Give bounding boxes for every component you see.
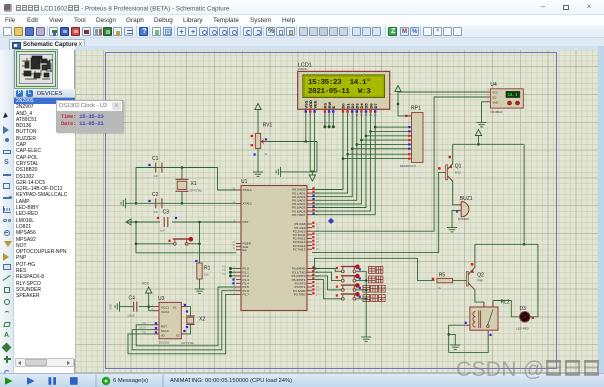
svg-text:RP1: RP1 [411, 106, 421, 112]
wire U1 P3.0 row to button 1 [312, 269, 339, 272]
junction X1 top [181, 166, 184, 169]
LCD screen [303, 75, 385, 98]
wire net XTAL2 row [131, 202, 237, 204]
svg-text:32: 32 [316, 214, 319, 217]
svg-text:1: 1 [488, 98, 490, 101]
svg-text:C1: C1 [152, 156, 159, 162]
sheet border [106, 53, 557, 369]
svg-text:12: 12 [316, 275, 319, 278]
wire LCD D1 to U1 P0.1 [312, 113, 348, 194]
svg-text:X1: X1 [191, 181, 197, 187]
junction D1 to RP1 run [346, 153, 349, 156]
svg-text:I/O: I/O [143, 330, 146, 334]
junction VSS-wiper [305, 140, 308, 143]
relay coil [473, 311, 481, 329]
svg-text:RST: RST [161, 324, 167, 328]
svg-text:P12: P12 [222, 273, 227, 276]
button label jian (minus key) [369, 267, 383, 274]
capacitor C1 [136, 167, 156, 169]
wire D0 to RP1 pin 9 [343, 158, 408, 160]
svg-text:28: 28 [316, 248, 319, 251]
svg-text:X2: X2 [199, 317, 205, 323]
wire LCD D7 to U1 P0.7 [312, 113, 375, 215]
ground (BUZ1) [447, 223, 457, 232]
svg-text:16: 16 [316, 290, 319, 293]
relay RL2 body [470, 307, 498, 330]
svg-text:GND: GND [109, 304, 113, 310]
wire LCD VEE column [312, 113, 314, 173]
svg-text:23: 23 [316, 230, 319, 233]
button label xuanze (select key) [363, 285, 385, 292]
wire VCC to RP1 pin1 [398, 95, 408, 116]
junction D7 to RP1 run [374, 126, 377, 129]
power VCC arrow (RP1/U4) [395, 86, 401, 95]
svg-text:220uF: 220uF [128, 314, 136, 318]
svg-text:P3.7/RD: P3.7/RD [294, 293, 306, 297]
wire D7 to RP1 pin 2 [375, 126, 407, 128]
U1 P0 state dots [312, 187, 314, 214]
wire U3 X1 to crystal X2 top [186, 307, 190, 316]
junction button2 common [365, 279, 368, 282]
svg-text:1: 1 [322, 122, 324, 125]
wire D3 to RP1 pin 6 [357, 143, 408, 145]
svg-text:22: 22 [316, 227, 319, 230]
transistor Q2 PNP [455, 267, 475, 290]
junction button4 common [365, 298, 368, 301]
power VCC arrow (Q1 rail) [475, 130, 481, 139]
RP1 pin 3 stub [408, 130, 412, 132]
svg-text:13: 13 [316, 279, 319, 282]
wire reset button row [136, 222, 174, 244]
wire LCD VDD column [310, 113, 312, 171]
svg-text:P11: P11 [222, 269, 227, 272]
wire buttons common to ground [365, 271, 367, 332]
svg-text:U4: U4 [490, 82, 497, 88]
wire LCD D0 to U1 P0.0 [312, 113, 343, 190]
LCD RS stub to net label [324, 113, 326, 127]
U3 pin stubs [152, 304, 159, 334]
wire RST to R1 [199, 222, 201, 263]
capacitor C4 220uF [133, 302, 135, 312]
push button 2 [336, 274, 366, 282]
svg-text:15:35:23 14.1°: 15:35:23 14.1° [308, 78, 370, 87]
svg-text:33: 33 [316, 210, 319, 213]
LCD pin labels and stubs [304, 100, 378, 117]
svg-text:2: 2 [488, 94, 490, 97]
RP1 pin 1 stub [408, 115, 412, 117]
svg-text:CRYSTAL: CRYSTAL [182, 341, 195, 345]
wire rail horizontal Q2-D3 [475, 243, 538, 245]
junction relay ground [447, 333, 450, 336]
svg-text:DS18B20: DS18B20 [490, 110, 502, 114]
ground (buttons) [361, 332, 371, 341]
svg-text:GND: GND [492, 101, 498, 105]
buzzer BUZ1 [461, 202, 469, 217]
svg-text:XTAL1: XTAL1 [243, 188, 253, 192]
svg-text:C3: C3 [163, 210, 170, 216]
potentiometer RV1 [255, 133, 260, 148]
relay NO pin stub [487, 330, 489, 335]
junction C4 row [147, 305, 150, 308]
wire EA row [136, 244, 236, 253]
svg-text:10: 10 [316, 268, 319, 271]
junction X1 bottom [181, 202, 184, 205]
relay switch common pin stub [492, 301, 494, 308]
svg-text:VCC: VCC [142, 282, 150, 286]
svg-text:24: 24 [316, 234, 319, 237]
ground (LCD, rotated) [276, 167, 285, 177]
svg-text:21: 21 [316, 223, 319, 226]
junction button row left [135, 243, 138, 246]
wire D5 to RP1 pin 4 [366, 135, 408, 137]
svg-text:U3: U3 [158, 296, 165, 302]
junction D6 to RP1 run [369, 130, 372, 133]
ground (crystal cluster) [121, 198, 130, 208]
voltage probe marker (blue diamond) [328, 218, 334, 223]
junction C2 row left [135, 202, 138, 205]
wire C1-C2 left link [135, 168, 137, 204]
resistor R5 [437, 278, 453, 282]
wire Q2 collector to relay coil [475, 290, 484, 307]
wire R5 to Q2 base [453, 280, 455, 282]
push button (reset) [173, 242, 176, 245]
svg-text:38: 38 [316, 192, 319, 195]
wire U1 P3.1 row to button 2 [312, 272, 339, 280]
ground (RV1) [253, 167, 263, 176]
svg-text:17: 17 [316, 293, 319, 296]
svg-text:D3: D3 [520, 306, 527, 312]
svg-text:CE: CE [142, 321, 146, 325]
RP1 pin 9 stub [408, 158, 412, 160]
wire Q1 base net (U1 P2.7) [312, 172, 444, 252]
U1 P1.0 stub wire and green terminal [231, 268, 237, 270]
RP1 pin 7 stub [408, 148, 412, 150]
wire LCD VSS column [305, 113, 307, 142]
ground (R1) [195, 284, 205, 293]
BUZ1 pin stubs [457, 204, 462, 206]
ground flag (C4, rotated) [125, 306, 133, 308]
U1 right pin stubs, names, numbers [292, 188, 320, 297]
capacitor C3 [160, 217, 172, 227]
push button 4 [336, 292, 366, 300]
power down-arrow (LCD) [309, 172, 315, 181]
svg-text:RST: RST [243, 220, 249, 224]
wire D2 to RP1 pin 7 [352, 148, 407, 150]
svg-text:100: 100 [204, 273, 209, 277]
svg-text:PNP: PNP [477, 279, 483, 283]
svg-text:CRYSTAL: CRYSTAL [190, 189, 203, 193]
RP1 pin 6 stub [408, 143, 412, 145]
relay coil top pin stub [483, 302, 485, 307]
LED D3 [520, 312, 530, 322]
junction D2 to RP1 run [351, 147, 354, 150]
wire net RST row [126, 221, 236, 223]
svg-text:BUZ1: BUZ1 [460, 196, 473, 202]
svg-text:R5: R5 [439, 273, 446, 279]
wire LCD D3 to U1 P0.3 [312, 113, 357, 201]
ground (relay) [449, 334, 456, 340]
svg-text:31: 31 [232, 247, 235, 250]
wire Q1 emitter to VCC rail [452, 144, 454, 164]
push button 3 [336, 283, 366, 291]
svg-text:P0.7/AD7: P0.7/AD7 [292, 213, 306, 217]
junction button3 common [365, 289, 368, 292]
svg-text:RESPACK-8: RESPACK-8 [400, 164, 416, 168]
junction VCC rail [477, 143, 480, 146]
junction D3 to RP1 run [356, 143, 359, 146]
svg-text:I/O: I/O [161, 333, 166, 337]
wire RV1 wiper to LCD VSS column [267, 141, 306, 143]
wire crystal X2 bottom to U3 X2 [186, 325, 190, 334]
svg-text:Q1: Q1 [455, 164, 462, 170]
svg-text:27: 27 [316, 245, 319, 248]
VCC rail top [453, 143, 524, 145]
U1 P1.3/P1.4 state dots [232, 279, 234, 281]
wire U3 CE to U1 P1.5 [136, 287, 236, 346]
crystal X1 [181, 168, 183, 180]
wire U4 DQ net [312, 97, 486, 231]
button label jia (plus key) [369, 276, 383, 283]
svg-text:LM016L: LM016L [298, 67, 309, 71]
svg-text:C4: C4 [129, 296, 136, 302]
svg-text:P2.7/A15: P2.7/A15 [293, 247, 306, 251]
wire C4 row [139, 306, 154, 308]
wire U3 SCLK to U1 P1.6 [132, 291, 236, 350]
RP1 pin 4 stub [408, 135, 412, 137]
wire relay coil to ground [449, 325, 489, 352]
RP1 pin 2 stub [408, 126, 412, 128]
microcontroller U1 AT89C51 body [241, 186, 307, 311]
wire BUZ1 to ground [452, 210, 457, 222]
ground (U4) [477, 118, 487, 127]
wire LCD D4 to U1 P0.4 [312, 113, 361, 204]
svg-text:SCLK: SCLK [139, 326, 146, 330]
wire LCD D5 to U1 P0.5 [312, 113, 366, 208]
svg-text:11: 11 [316, 271, 319, 274]
svg-text:U1: U1 [241, 179, 248, 185]
U4 pin stubs [486, 91, 491, 93]
crystal X2 [186, 315, 195, 317]
RST left arrow terminal [126, 219, 131, 225]
button label shezhi (set key) [363, 295, 385, 302]
svg-text:1k: 1k [265, 152, 268, 156]
svg-text:3: 3 [488, 89, 490, 92]
wire U1 P3.3 row to button 4 [312, 280, 339, 299]
svg-text:15: 15 [316, 286, 319, 289]
wire D4 to RP1 pin 5 [361, 139, 407, 141]
transistor Q1 9012 [443, 164, 453, 182]
U3 X1/X2 right pin stubs [181, 306, 186, 308]
relay switch lever [488, 310, 494, 326]
svg-text:2021-05-11 W:3: 2021-05-11 W:3 [308, 88, 371, 96]
wire net XTAL1 row [136, 168, 236, 191]
svg-text:35: 35 [316, 203, 319, 206]
svg-text:VCC1: VCC1 [161, 305, 169, 309]
power VCC arrow (RV1) [255, 104, 261, 113]
junction D5 to RP1 run [365, 135, 368, 138]
junction RST left [135, 221, 138, 224]
LCD LCD1 body [298, 71, 390, 109]
junction D4 to RP1 run [360, 139, 363, 142]
LCD E stub to net label [332, 113, 334, 127]
svg-text:LED-RED: LED-RED [517, 327, 529, 331]
wire VCC rail down to Q2/D3 [523, 144, 525, 244]
junction RST right [198, 221, 201, 224]
svg-text:3: 3 [331, 122, 333, 125]
U1 left pin stubs, names, numbers [232, 188, 252, 297]
svg-text:XTAL2: XTAL2 [243, 202, 253, 206]
junction D0 to RP1 run [342, 157, 345, 160]
svg-text:P1.7: P1.7 [243, 293, 250, 297]
wire D6 to RP1 pin 3 [371, 130, 408, 132]
svg-text:26: 26 [316, 241, 319, 244]
svg-text:2: 2 [326, 122, 328, 125]
svg-text:DS1302: DS1302 [159, 341, 170, 345]
wire relay drive net (U1 P3.0 to R5) [315, 258, 435, 280]
capacitor C2 [155, 198, 157, 208]
junction P3.0 [313, 267, 316, 270]
svg-text:37: 37 [316, 196, 319, 199]
svg-text:14.1: 14.1 [508, 94, 519, 98]
relay coil left pin stub [466, 324, 470, 326]
svg-text:VEE: VEE [312, 100, 317, 108]
svg-text:VCC: VCC [492, 91, 498, 95]
svg-text:P10: P10 [222, 266, 227, 269]
svg-text:1nF: 1nF [154, 210, 159, 214]
wire Q1 collector to buzzer [453, 181, 457, 205]
push button 1 [336, 265, 366, 273]
wire VCC to U4 VCC pin [398, 91, 486, 93]
svg-text:14: 14 [316, 282, 319, 285]
svg-text:C2: C2 [152, 192, 159, 198]
svg-text:39: 39 [316, 189, 319, 192]
svg-text:D7: D7 [373, 103, 378, 109]
svg-text:1nF: 1nF [154, 174, 159, 178]
svg-text:R1: R1 [204, 266, 211, 272]
RP1 pin 5 stub [408, 139, 412, 141]
wire RV1 to ground [257, 149, 259, 168]
U3 CE/SCLK/IO blue dots and net labels [155, 322, 157, 324]
wire U3 I/O to U1 P1.7 [128, 294, 236, 353]
svg-text:BUZZER: BUZZER [458, 217, 469, 221]
junction button row right [198, 243, 201, 246]
wire VCC to U3 VCC pins [149, 296, 154, 311]
junction rail at 244 [523, 243, 526, 246]
RP1 pin 8 stub [408, 153, 412, 155]
wire LCD D2 to U1 P0.2 [312, 113, 352, 197]
wire VSS/VEE to ground run [286, 142, 318, 172]
svg-text:RV1: RV1 [263, 123, 273, 129]
RTC U3 DS1302 body [159, 302, 181, 338]
wire U4 GND to ground [482, 102, 486, 118]
svg-text:36: 36 [316, 199, 319, 202]
svg-text:34: 34 [316, 207, 319, 210]
svg-text:E: E [331, 106, 336, 109]
resistor pack RP1 [412, 113, 424, 163]
junction VCC stem [397, 103, 400, 106]
wire rail to Q2 emitter [474, 244, 476, 267]
LCD RW stub to net label [328, 113, 330, 127]
U1 P1.1 stub wire and green terminal [231, 271, 237, 273]
svg-text:25: 25 [316, 237, 319, 240]
U1 P1.2 stub wire and green terminal [231, 275, 237, 277]
svg-text:X2: X2 [176, 333, 180, 337]
wire LCD D6 to U1 P0.6 [312, 113, 371, 212]
svg-text:2k: 2k [438, 286, 441, 290]
wire D3 right to rail [530, 244, 538, 316]
wire R1 to ground [199, 279, 201, 284]
svg-text:X1: X1 [173, 305, 177, 309]
wire U1 P3.2 row to button 3 [312, 276, 339, 290]
resistor R1 [197, 263, 202, 279]
svg-text:VCC2: VCC2 [161, 310, 169, 314]
wire VCC to RV1 [257, 113, 259, 134]
sensor U4 DS18B20 [490, 89, 523, 108]
svg-text:1uF: 1uF [160, 229, 165, 233]
wire relay common to D3 left [493, 301, 520, 317]
wire D1 to RP1 pin 8 [348, 153, 408, 155]
svg-text:9012: 9012 [455, 171, 462, 175]
